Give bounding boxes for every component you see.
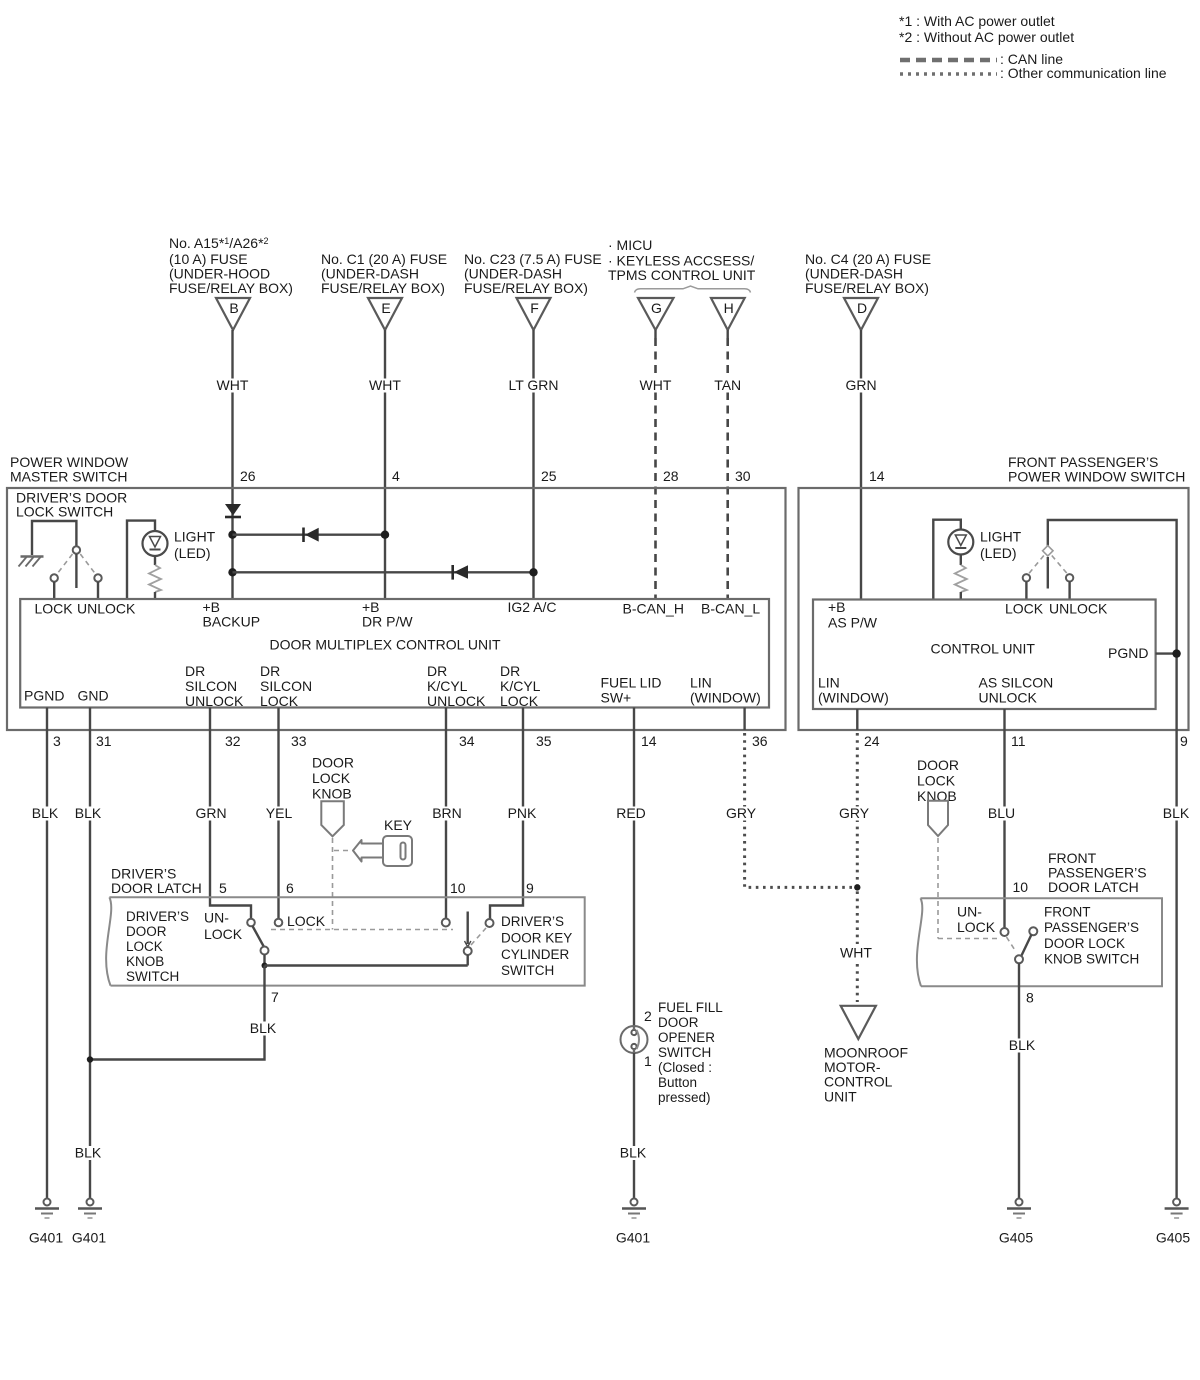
svg-text:31: 31 (96, 733, 112, 749)
resistor under LED (right) (955, 555, 967, 600)
legend CAN line sample (900, 51, 1063, 67)
UN-LOCK label (passenger latch) (957, 904, 996, 936)
lock switch dashed throws (57, 554, 96, 574)
svg-text:BLK: BLK (1009, 1037, 1036, 1053)
passenger latch contacts (1001, 927, 1038, 936)
svg-text:4: 4 (392, 468, 400, 484)
svg-text:B-CAN_H: B-CAN_H (623, 601, 684, 617)
latch common wire (265, 964, 468, 966)
key mechanical dashed link (334, 850, 352, 852)
latch LOCK contact (pin6) (275, 913, 326, 929)
svg-text:1: 1 (644, 1053, 652, 1069)
svg-text:BLK: BLK (250, 1020, 277, 1036)
ground G401 (pin 3) (29, 1199, 63, 1246)
svg-text:KNOB SWITCH: KNOB SWITCH (1044, 952, 1139, 967)
svg-text:LOCK: LOCK (260, 693, 299, 709)
wire fuse E to pin 4 (WHT) (366, 330, 404, 599)
svg-text:DRIVER’S: DRIVER’S (126, 909, 189, 924)
LIGHT (LED) label right (980, 529, 1022, 562)
svg-text:FUSE/RELAY BOX): FUSE/RELAY BOX) (464, 280, 588, 296)
svg-text:WHT: WHT (840, 945, 872, 961)
svg-text:LIGHT: LIGHT (174, 529, 216, 545)
svg-text:G405: G405 (999, 1230, 1033, 1246)
door lock knob label (driver) (312, 755, 354, 802)
fuse E connector triangle (368, 298, 402, 330)
brace under MICU label (635, 286, 751, 293)
door lock knob label (passenger) (917, 757, 959, 804)
pin label PGND (right) and wire to rail (1108, 645, 1181, 661)
driver's door lock switch label (16, 490, 127, 520)
svg-text:PNK: PNK (508, 805, 537, 821)
svg-text:DOOR KEY: DOOR KEY (501, 931, 572, 946)
pin label LIN (WINDOW) right (818, 675, 889, 706)
fuse F label (464, 251, 602, 296)
svg-text:TPMS CONTROL UNIT: TPMS CONTROL UNIT (608, 267, 756, 283)
svg-text:TAN: TAN (714, 377, 741, 393)
svg-text:GRY: GRY (726, 805, 757, 821)
svg-text:UNLOCK: UNLOCK (77, 601, 136, 617)
fuse D connector triangle (844, 298, 878, 330)
driver's door latch label (111, 866, 202, 896)
svg-text:B: B (229, 300, 238, 316)
svg-text:pressed): pressed) (658, 1090, 711, 1105)
svg-text:DOOR LOCK: DOOR LOCK (1044, 936, 1125, 951)
junction dot GND wire (87, 1056, 93, 1062)
wire pin 36 GRY dotted to moonroof junction (723, 708, 854, 888)
svg-text:LIN: LIN (818, 675, 840, 691)
svg-text:BACKUP: BACKUP (203, 614, 261, 630)
ground G405 (pin 9) (1156, 1199, 1190, 1246)
fuse B connector triangle (216, 298, 250, 330)
svg-text:DR P/W: DR P/W (362, 614, 413, 630)
pin label LOCK / UNLOCK (driver) (35, 601, 137, 617)
front passenger's power window switch outer box (799, 454, 1189, 730)
control unit inner box (right) (813, 600, 1156, 710)
legend (899, 13, 1074, 45)
svg-text:BLU: BLU (988, 805, 1015, 821)
svg-text:RED: RED (616, 805, 646, 821)
svg-text:KNOB: KNOB (126, 954, 164, 969)
svg-text:6: 6 (286, 880, 294, 896)
svg-text:36: 36 (752, 733, 768, 749)
svg-text:8: 8 (1026, 990, 1034, 1006)
svg-text:SW+: SW+ (601, 690, 632, 706)
passenger switch pivot diamond (1043, 546, 1053, 589)
svg-text:CONTROL UNIT: CONTROL UNIT (931, 641, 1036, 657)
svg-text:DOOR LATCH: DOOR LATCH (1048, 879, 1139, 895)
latch pin numbers (219, 880, 534, 896)
svg-text:33: 33 (291, 733, 307, 749)
wire pin 9 BLK to G405 (1160, 730, 1192, 1199)
svg-text:(Closed :: (Closed : (658, 1060, 712, 1075)
door multiplex control unit inner box (20, 599, 769, 708)
wire latch pin 8 to G405 (BLK) (1006, 963, 1038, 1198)
svg-text:K/CYL: K/CYL (500, 678, 541, 694)
svg-text:FUEL LID: FUEL LID (601, 675, 662, 691)
resistor under LED (left) (149, 556, 161, 599)
svg-text:(WINDOW): (WINDOW) (818, 690, 889, 706)
wire +B BACKUP to IG2 A/C with diode (233, 565, 538, 580)
front passenger's door latch label (1048, 850, 1147, 895)
passenger lock switch top wire to PGND rail (1048, 520, 1177, 730)
fuel fill switch label (658, 1000, 723, 1105)
svg-text:AS SILCON: AS SILCON (979, 675, 1054, 691)
wire +B BACKUP to +B DR P/W with diode (233, 528, 390, 543)
svg-text:9: 9 (1180, 733, 1188, 749)
pin label LIN (WINDOW) left (690, 675, 761, 706)
svg-text:: Other communication line: : Other communication line (1000, 65, 1167, 81)
svg-text:UNIT: UNIT (824, 1089, 857, 1105)
fuel fill door opener switch (621, 1008, 653, 1069)
svg-text:24: 24 (864, 733, 880, 749)
wire fuse D to pin 14 (GRN) (842, 330, 885, 600)
svg-text:BLK: BLK (1163, 805, 1190, 821)
fuse E label (321, 251, 447, 296)
pin label DR SILCON LOCK (260, 663, 312, 709)
svg-text:DR: DR (185, 663, 205, 679)
svg-text:GND: GND (78, 688, 109, 704)
svg-text:POWER WINDOW SWITCH: POWER WINDOW SWITCH (1008, 469, 1185, 485)
lock switch pivot (73, 546, 80, 588)
UN-LOCK label (driver latch) (204, 910, 243, 943)
pin label +B BACKUP (203, 599, 261, 630)
svg-text:PGND: PGND (24, 688, 64, 704)
moonroof motor-control unit label (824, 1045, 908, 1105)
power window master switch outer box (7, 454, 786, 730)
svg-text:Button: Button (658, 1075, 697, 1090)
svg-text:*2 : Without AC power outlet: *2 : Without AC power outlet (899, 29, 1074, 45)
knob switch lever (253, 926, 269, 963)
svg-text:G401: G401 (29, 1230, 63, 1246)
svg-text:3: 3 (53, 733, 61, 749)
svg-text:PASSENGER’S: PASSENGER’S (1044, 920, 1139, 935)
pin label DR SILCON UNLOCK (185, 663, 244, 709)
svg-text:SWITCH: SWITCH (658, 1045, 711, 1060)
svg-text:30: 30 (735, 468, 751, 484)
svg-text:DOOR: DOOR (126, 924, 167, 939)
svg-text:14: 14 (869, 468, 885, 484)
svg-text:DRIVER’S: DRIVER’S (501, 914, 564, 929)
svg-text:DOOR: DOOR (312, 755, 354, 771)
svg-text:OPENER: OPENER (658, 1030, 715, 1045)
LIGHT (LED) label left (174, 529, 216, 562)
key symbol (353, 836, 412, 866)
svg-text:AS P/W: AS P/W (828, 615, 878, 631)
svg-text:SWITCH: SWITCH (126, 969, 179, 984)
svg-text:35: 35 (536, 733, 552, 749)
door lock knob symbol (driver) (321, 801, 344, 836)
LOCK contact (51, 574, 58, 599)
driver's door lock knob switch label (126, 909, 189, 984)
knob mechanical dashed link (passenger) (938, 838, 1000, 939)
junction dot moonroof lines (854, 884, 860, 890)
passenger knob switch lever (1007, 935, 1032, 964)
svg-text:E: E (381, 300, 390, 316)
svg-text:LIGHT: LIGHT (980, 529, 1022, 545)
svg-text:32: 32 (225, 733, 241, 749)
wire fuel switch to G401 (BLK) (617, 1053, 649, 1199)
svg-text:KNOB: KNOB (312, 785, 352, 801)
svg-text:UNLOCK: UNLOCK (185, 693, 244, 709)
svg-text:G: G (651, 300, 662, 316)
svg-text:DOOR: DOOR (658, 1015, 699, 1030)
wire latch pin 7 to GND junction (BLK) (90, 966, 279, 1060)
svg-text:UN-: UN- (957, 904, 982, 920)
svg-text:MASTER SWITCH: MASTER SWITCH (10, 469, 127, 485)
wire pin 33 YEL to latch pin 6 (263, 708, 307, 919)
junction node backup/ig2 (228, 568, 236, 576)
dotted wire WHT to moonroof connector (837, 945, 875, 1003)
ground G405 (latch pin 8) (999, 1199, 1033, 1246)
fuse B label (169, 235, 293, 296)
legend other communication line sample (900, 65, 1167, 81)
door lock knob symbol (passenger) (928, 801, 948, 836)
svg-text:GRY: GRY (839, 805, 870, 821)
svg-text:KEY: KEY (384, 817, 413, 833)
wire pin 3 PGND to G401 (BLK) (29, 708, 61, 1199)
svg-text:10: 10 (450, 880, 466, 896)
wire pin 11 BLU to passenger latch (986, 709, 1026, 928)
driver's door latch box (106, 897, 585, 985)
svg-text:10: 10 (1013, 879, 1029, 895)
svg-text:BRN: BRN (432, 805, 462, 821)
svg-text:YEL: YEL (266, 805, 293, 821)
key cylinder contacts (442, 919, 494, 928)
fuse F connector triangle (517, 298, 551, 330)
svg-text:(WINDOW): (WINDOW) (690, 690, 761, 706)
MICU / keyless unit label (608, 237, 756, 283)
wire pin 32 GRN to latch pin 5 (193, 708, 251, 919)
svg-text:DR: DR (260, 663, 280, 679)
svg-text:(LED): (LED) (174, 545, 211, 561)
svg-text:LOCK SWITCH: LOCK SWITCH (16, 504, 113, 520)
svg-text:PGND: PGND (1108, 645, 1148, 661)
dashed CAN wire H to pin 30 (TAN) (711, 330, 751, 599)
UNLOCK contact (94, 574, 101, 599)
wire pin 31 GND to G401 (BLK) (72, 708, 112, 1199)
passenger LOCK contact (1023, 574, 1030, 599)
svg-text:BLK: BLK (620, 1145, 647, 1161)
svg-text:· MICU: · MICU (608, 237, 652, 253)
svg-text:UNLOCK: UNLOCK (1049, 601, 1108, 617)
front passenger's door lock knob switch label (1044, 905, 1139, 967)
svg-text:UN-: UN- (204, 910, 229, 926)
svg-text:D: D (857, 300, 867, 316)
wire pin 34 BRN to latch pin 10 (429, 708, 475, 919)
svg-text:LOCK: LOCK (917, 772, 956, 788)
svg-text:G401: G401 (616, 1230, 650, 1246)
svg-text:LOCK: LOCK (500, 693, 539, 709)
ground G401 (pin 31) (72, 1199, 106, 1246)
svg-text:26: 26 (240, 468, 256, 484)
svg-text:GRN: GRN (195, 805, 226, 821)
svg-text:14: 14 (641, 733, 657, 749)
wire pin 14 RED to fuel fill switch (614, 708, 657, 1027)
svg-text:FRONT: FRONT (1044, 905, 1091, 920)
svg-text:No. A15*1/A26*2: No. A15*1/A26*2 (169, 235, 269, 251)
driver's door key cylinder switch label (501, 914, 572, 978)
svg-text:LOCK: LOCK (204, 926, 243, 942)
svg-text:28: 28 (663, 468, 679, 484)
pin label DR K/CYL LOCK (500, 663, 541, 709)
pin label FUEL LID SW+ (601, 675, 662, 706)
svg-text:LOCK: LOCK (35, 601, 74, 617)
svg-text:LOCK: LOCK (957, 919, 996, 935)
pin label DR K/CYL UNLOCK (427, 663, 486, 709)
connector G triangle (638, 298, 674, 330)
wire fuse B to pin 26 (WHT) (214, 330, 256, 599)
svg-text:FUSE/RELAY BOX): FUSE/RELAY BOX) (169, 280, 293, 296)
wire pin 24 GRY dotted to moonroof junction (836, 709, 880, 944)
svg-text:IG2 A/C: IG2 A/C (508, 599, 557, 615)
diode from pin 26 (vertical) (225, 504, 241, 517)
svg-text:LIN: LIN (690, 675, 712, 691)
svg-text:CONTROL: CONTROL (824, 1074, 893, 1090)
pin label +B DR P/W (362, 599, 413, 630)
svg-text:SWITCH: SWITCH (501, 963, 554, 978)
pin label LOCK / UNLOCK (passenger) (1005, 601, 1108, 617)
latch UNLOCK contact (pin5) (247, 919, 255, 927)
front passenger's door latch box (917, 898, 1162, 986)
LED lamp circle (right) (948, 530, 973, 555)
connector H triangle (711, 298, 745, 330)
svg-text:DOOR MULTIPLEX CONTROL UNIT: DOOR MULTIPLEX CONTROL UNIT (269, 637, 500, 653)
svg-text:+B: +B (828, 599, 846, 615)
passenger UNLOCK contact (1066, 574, 1073, 599)
junction dot latch common (262, 963, 268, 969)
svg-text:DOOR: DOOR (917, 757, 959, 773)
svg-text:BLK: BLK (32, 805, 59, 821)
svg-text:LOCK: LOCK (1005, 601, 1044, 617)
key cylinder switch lever (464, 912, 472, 966)
latch mechanical dashed links (271, 928, 486, 945)
knob mechanical dashed link (332, 838, 334, 930)
svg-text:SILCON: SILCON (260, 678, 312, 694)
svg-text:BLK: BLK (75, 1145, 102, 1161)
svg-text:H: H (724, 300, 734, 316)
pin label AS SILCON UNLOCK (979, 675, 1054, 706)
svg-text:UNLOCK: UNLOCK (427, 693, 486, 709)
svg-text:DR: DR (427, 663, 447, 679)
svg-text:WHT: WHT (369, 377, 401, 393)
svg-text:B-CAN_L: B-CAN_L (701, 601, 760, 617)
wire fuse F to pin 25 (LT GRN) (506, 330, 562, 599)
LED branch wire (left) (127, 521, 155, 599)
svg-text:DR: DR (500, 663, 520, 679)
svg-text:9: 9 (526, 880, 534, 896)
svg-text:CYLINDER: CYLINDER (501, 947, 570, 962)
svg-text:G405: G405 (1156, 1230, 1190, 1246)
svg-text:FUSE/RELAY BOX): FUSE/RELAY BOX) (321, 280, 445, 296)
svg-text:UNLOCK: UNLOCK (979, 690, 1038, 706)
LED lamp circle (left) (143, 531, 168, 556)
svg-text:5: 5 (219, 880, 227, 896)
svg-text:(LED): (LED) (980, 545, 1017, 561)
svg-text:LOCK: LOCK (126, 939, 163, 954)
svg-text:25: 25 (541, 468, 557, 484)
svg-text:GRN: GRN (845, 377, 876, 393)
junction node backup/drpw (228, 531, 236, 539)
svg-text:2: 2 (644, 1008, 652, 1024)
pin label +B AS P/W (828, 599, 878, 631)
svg-text:*1 : With AC power outlet: *1 : With AC power outlet (899, 13, 1055, 29)
svg-text:LOCK: LOCK (312, 770, 351, 786)
passenger switch dashed throws (1029, 556, 1068, 575)
dashed CAN wire G to pin 28 (WHT) (637, 330, 679, 599)
svg-text:34: 34 (459, 733, 475, 749)
wire pin 35 PNK to latch pin 9 (490, 708, 552, 920)
ground G401 (fuel switch) (616, 1199, 650, 1246)
svg-text:FUEL FILL: FUEL FILL (658, 1000, 723, 1015)
svg-text:LOCK: LOCK (287, 913, 326, 929)
moonroof connector triangle (841, 1006, 876, 1039)
driver's door lock switch: top bar and ground lead (32, 521, 76, 555)
svg-text:11: 11 (1011, 733, 1026, 749)
svg-text:K/CYL: K/CYL (427, 678, 468, 694)
LED branch wire (right) (933, 520, 961, 600)
svg-text:WHT: WHT (217, 377, 249, 393)
svg-text:FUSE/RELAY BOX): FUSE/RELAY BOX) (805, 280, 929, 296)
svg-text:BLK: BLK (75, 805, 102, 821)
svg-text:F: F (530, 300, 539, 316)
svg-text:SILCON: SILCON (185, 678, 237, 694)
chassis ground hatch (19, 557, 44, 567)
svg-text:G401: G401 (72, 1230, 106, 1246)
svg-text:DOOR LATCH: DOOR LATCH (111, 880, 202, 896)
svg-text:WHT: WHT (640, 377, 672, 393)
fuse D label (805, 251, 931, 296)
svg-text:7: 7 (271, 989, 279, 1005)
svg-text:LT GRN: LT GRN (508, 377, 558, 393)
